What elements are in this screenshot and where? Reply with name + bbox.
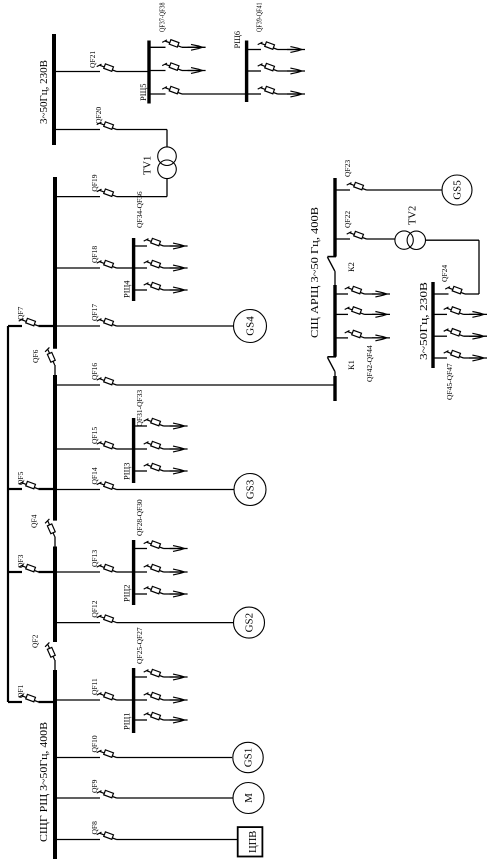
svg-text:QF2: QF2 (31, 634, 40, 648)
svg-text:РЩ2: РЩ2 (122, 584, 132, 602)
svg-text:3~50Гц, 230В: 3~50Гц, 230В (39, 60, 50, 124)
svg-text:QF42-QF44: QF42-QF44 (365, 345, 374, 382)
svg-text:QF18: QF18 (90, 246, 99, 263)
svg-text:QF7: QF7 (16, 306, 25, 320)
svg-text:QF16: QF16 (90, 363, 99, 380)
svg-text:РЩ5: РЩ5 (138, 83, 148, 101)
svg-text:GS3: GS3 (245, 479, 257, 499)
svg-text:РЩ1: РЩ1 (122, 712, 132, 730)
svg-text:QF4: QF4 (30, 514, 39, 528)
svg-text:QF10: QF10 (90, 735, 99, 752)
svg-text:QF3: QF3 (16, 554, 25, 568)
svg-text:QF28-QF30: QF28-QF30 (135, 499, 144, 536)
svg-text:QF45-QF47: QF45-QF47 (445, 363, 454, 400)
svg-text:QF21: QF21 (88, 51, 97, 68)
svg-text:QF31-QF33: QF31-QF33 (135, 390, 144, 427)
svg-text:TV2: TV2 (408, 206, 419, 225)
svg-text:QF12: QF12 (90, 600, 99, 617)
svg-text:GS4: GS4 (245, 316, 257, 336)
svg-text:QF23: QF23 (343, 160, 352, 177)
svg-text:РЩ4: РЩ4 (122, 280, 132, 298)
svg-text:М: М (243, 793, 255, 803)
svg-text:QF37-QF38: QF37-QF38 (159, 2, 167, 32)
svg-text:QF6: QF6 (31, 349, 40, 363)
svg-text:QF14: QF14 (90, 467, 99, 484)
svg-text:GS5: GS5 (452, 180, 464, 200)
svg-text:К1: К1 (346, 360, 356, 370)
svg-text:РЩ3: РЩ3 (122, 462, 132, 480)
svg-text:QF22: QF22 (343, 211, 352, 228)
svg-text:QF20: QF20 (94, 107, 103, 124)
svg-text:К2: К2 (346, 262, 356, 272)
svg-text:3~50Гц, 230В: 3~50Гц, 230В (419, 282, 430, 360)
svg-text:TV1: TV1 (143, 156, 154, 175)
svg-text:QF39-QF41: QF39-QF41 (256, 2, 264, 32)
svg-text:GS1: GS1 (243, 748, 255, 768)
svg-text:QF24: QF24 (440, 265, 449, 282)
svg-text:QF15: QF15 (90, 427, 99, 444)
svg-text:QF25-QF27: QF25-QF27 (135, 627, 144, 664)
svg-text:QF11: QF11 (90, 678, 99, 695)
svg-text:GS2: GS2 (244, 613, 256, 633)
svg-text:QF13: QF13 (90, 550, 99, 567)
svg-text:QF5: QF5 (16, 471, 25, 485)
svg-text:РЩ6: РЩ6 (232, 31, 242, 49)
svg-text:QF19: QF19 (90, 174, 99, 191)
svg-text:ЦПВ: ЦПВ (248, 831, 259, 853)
svg-text:QF1: QF1 (16, 684, 25, 698)
svg-text:QF8: QF8 (90, 821, 99, 835)
svg-text:QF9: QF9 (90, 779, 99, 793)
svg-text:СЩ АРЩ 3~50 Гц, 400В: СЩ АРЩ 3~50 Гц, 400В (310, 207, 321, 338)
svg-text:QF17: QF17 (90, 304, 99, 321)
svg-text:QF34-QF36: QF34-QF36 (135, 191, 144, 228)
svg-text:СЩГ РЩ 3~50Гц, 400В: СЩГ РЩ 3~50Гц, 400В (39, 722, 50, 842)
